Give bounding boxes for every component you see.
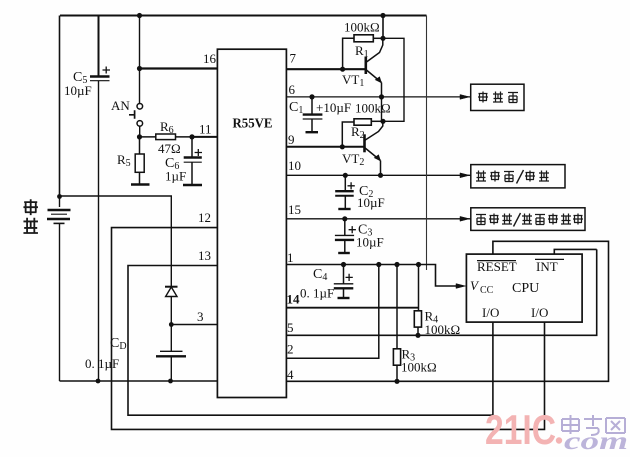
node diode / pin3 — [169, 322, 174, 327]
node C6 top — [189, 134, 194, 139]
capacitor C6 — [183, 137, 202, 185]
wire pin 15 to memory box — [286, 218, 470, 220]
wire pin 6 to transmit box — [286, 96, 470, 98]
svg-text:2: 2 — [287, 342, 294, 357]
overline INT — [535, 258, 564, 260]
label 电池 — [23, 199, 38, 233]
node C5 bottom on rail — [96, 379, 101, 384]
wire pin 14 — [286, 307, 418, 309]
svg-text:13: 13 — [198, 248, 211, 263]
wire top rail to R1 right — [382, 16, 384, 39]
overline RESET — [477, 260, 516, 262]
svg-text:0. 1µF: 0. 1µF — [300, 286, 334, 301]
IC U1 R55VE — [217, 49, 286, 397]
wire pin 11 — [192, 136, 218, 138]
wire pin 10 to receive box — [286, 174, 470, 176]
resistor R2 — [342, 119, 383, 147]
label C3 plus — [349, 226, 356, 233]
node VT1 emitter on pin6 — [379, 94, 384, 99]
wire pin 3 — [171, 324, 217, 326]
box receive 收信部/音频 — [471, 165, 565, 188]
node R4 bottom pin5 — [415, 333, 420, 338]
svg-text:5: 5 — [287, 320, 294, 335]
svg-text:I/O: I/O — [482, 305, 499, 320]
wire pin 2 — [286, 265, 378, 359]
label C2 plus — [348, 182, 355, 189]
label 收信部/音频 — [476, 170, 549, 184]
svg-text:AN: AN — [111, 98, 130, 113]
svg-text:14: 14 — [287, 292, 301, 307]
node R3 bottom pin4 — [394, 379, 399, 384]
svg-text:15: 15 — [288, 202, 301, 217]
wire bottom rail (pin 8 net) — [60, 380, 218, 382]
capacitor C2 — [335, 175, 354, 209]
svg-text:100kΩ: 100kΩ — [355, 101, 391, 116]
wire pin 5 to INT drop — [286, 249, 596, 335]
wire top rail — [60, 15, 427, 17]
CPU U2 box — [466, 254, 582, 322]
svg-text:3: 3 — [197, 309, 204, 324]
label C4 plus — [346, 274, 353, 281]
svg-text:INT: INT — [536, 259, 558, 274]
svg-text:10µF: 10µF — [356, 235, 384, 250]
battery B1 — [47, 197, 71, 382]
node pin16 junction — [137, 66, 142, 71]
node VT2 emitter pin10 — [378, 173, 383, 178]
wire pin 1 to VCC — [286, 265, 463, 287]
resistor R5 — [131, 137, 150, 185]
node C3 top — [342, 216, 347, 221]
svg-text:11: 11 — [199, 122, 212, 137]
watermark 电子网 — [562, 415, 625, 435]
resistor R3 — [393, 265, 400, 382]
label 发信部 — [478, 92, 518, 103]
svg-text:I/O: I/O — [531, 305, 548, 320]
node R1 right — [380, 36, 385, 41]
wire pin 12 to IO2 rail — [112, 228, 545, 430]
capacitor C1 — [303, 97, 323, 132]
svg-text:10µF: 10µF — [64, 83, 92, 98]
wire left frame upper (battery top) — [59, 16, 61, 197]
label 存储器/逻辑部件 — [476, 213, 583, 227]
long vertical from top rail — [426, 16, 428, 271]
node battery top junction — [57, 194, 62, 199]
svg-text:1: 1 — [287, 250, 294, 265]
node R1 left on pin7 — [340, 67, 345, 72]
svg-text:100kΩ: 100kΩ — [344, 20, 380, 35]
svg-text:RESET: RESET — [477, 259, 517, 274]
capacitor C3 — [335, 219, 354, 253]
node C4 top — [341, 262, 346, 267]
svg-text:CPU: CPU — [512, 281, 539, 296]
resistor R1 — [343, 35, 383, 69]
arrow into Vcc — [456, 284, 466, 289]
svg-text:R55VE: R55VE — [233, 116, 273, 131]
arrow into memory box — [460, 216, 470, 221]
wire pin 4 to RESET loop — [286, 241, 608, 381]
wire battery top to diode column — [60, 196, 172, 287]
svg-text:1µF: 1µF — [165, 169, 186, 184]
node R2 right — [380, 119, 385, 124]
svg-text:7: 7 — [290, 51, 297, 66]
box transmit 发信部 — [471, 84, 524, 110]
svg-text:16: 16 — [203, 51, 217, 66]
label C5 plus — [103, 67, 111, 74]
svg-text:+10µF: +10µF — [316, 100, 351, 115]
resistor R6 — [140, 134, 193, 140]
capacitor C4 — [334, 265, 354, 299]
svg-text:21IC: 21IC — [485, 406, 556, 453]
node C2 top — [343, 173, 348, 178]
node CD bottom on rail — [168, 379, 173, 384]
node R2 left pin9 — [340, 144, 345, 149]
switch AN — [129, 104, 143, 137]
svg-text:4: 4 — [287, 367, 294, 382]
wire pin 13 to IO1 rail — [128, 266, 493, 416]
diode VD — [165, 287, 178, 325]
node R3 top — [394, 262, 399, 267]
svg-text:10µF: 10µF — [357, 195, 385, 210]
wire VT1 emitter to R2 right — [381, 97, 383, 121]
box memory 存储器/逻辑部件 — [471, 208, 585, 231]
svg-text:com: com — [564, 428, 628, 455]
wire pin 9 — [286, 146, 364, 148]
node R5 R6 switch — [137, 134, 142, 139]
svg-text:CC: CC — [480, 285, 494, 296]
arrow into receive box — [460, 173, 470, 178]
svg-text:12: 12 — [198, 210, 211, 225]
svg-text:0. 1µF: 0. 1µF — [85, 356, 119, 371]
capacitor C5 — [90, 16, 110, 382]
node top rail drop — [380, 13, 385, 18]
node C1 top — [309, 94, 314, 99]
wire INT loop — [554, 249, 596, 254]
node AN top rail — [137, 13, 142, 18]
transistor VT1 — [366, 38, 383, 97]
wire R1R2 jog link — [383, 38, 404, 121]
svg-text:9: 9 — [288, 132, 295, 147]
node R4 top — [416, 262, 421, 267]
transistor VT2 — [365, 121, 383, 175]
svg-text:10: 10 — [288, 158, 301, 173]
capacitor CD — [156, 325, 186, 382]
label C6 plus — [195, 149, 202, 156]
node pin2 drop — [376, 262, 381, 267]
svg-text:100kΩ: 100kΩ — [401, 360, 437, 375]
svg-text:47Ω: 47Ω — [158, 141, 181, 156]
wire pin 16 — [140, 67, 218, 69]
resistor R4 — [414, 265, 421, 336]
svg-text:6: 6 — [289, 82, 296, 97]
wire pin 7 — [286, 68, 365, 70]
arrow into transmit box — [460, 95, 470, 100]
wire AN drop — [139, 16, 141, 104]
